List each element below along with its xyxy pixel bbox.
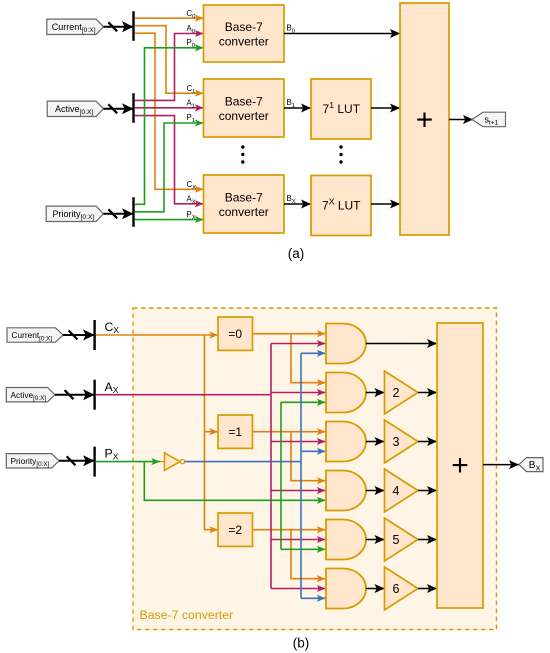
- wire inverted PX branch to AND gate 6: [301, 595, 326, 602]
- input bar Active (b): [93, 380, 95, 410]
- wire C1: [135, 26, 204, 97]
- AND gate G5: [326, 520, 366, 560]
- svg-text:CX: CX: [105, 320, 120, 335]
- svg-text:=2: =2: [228, 523, 242, 537]
- wire AX branch to AND gate 5: [271, 536, 326, 543]
- svg-text:7X LUT: 7X LUT: [322, 197, 361, 213]
- wire multiplier 4 to adder: [418, 486, 437, 495]
- svg-text:71 LUT: 71 LUT: [323, 100, 361, 116]
- bus arrow Active to bus bar: [104, 103, 134, 114]
- input tag Priority[0:X] (b): [6, 454, 59, 469]
- AND gate G6: [326, 569, 366, 609]
- wire inverted PX (blue) to riser: [185, 461, 301, 463]
- wire A1: [135, 104, 204, 111]
- svg-text:AX: AX: [105, 380, 119, 395]
- bus bar Current: [132, 11, 134, 41]
- block Base-7 converter U3: [204, 175, 285, 233]
- wire multiplier 6 to adder: [418, 584, 437, 593]
- AND gate G1: [326, 324, 366, 364]
- bus arrow Priority (b): [59, 455, 95, 466]
- svg-text:2: 2: [393, 386, 400, 400]
- AND gate G4: [326, 471, 366, 511]
- wire AX branch to AND gate 4: [271, 487, 326, 494]
- wire adder output (a): [449, 115, 473, 124]
- input bar Priority (b): [93, 447, 95, 477]
- bus arrow Current (b): [63, 330, 95, 341]
- adder block (a): [400, 3, 449, 235]
- wire LUT1 to adder: [371, 104, 400, 113]
- bus arrow Priority to bus bar: [104, 208, 134, 219]
- svg-text:Base-7: Base-7: [225, 95, 263, 109]
- wire =0 branch to AND gate 2: [291, 334, 326, 387]
- wire PX: [135, 216, 204, 223]
- output tag BX: [519, 458, 543, 473]
- svg-text:5: 5: [393, 533, 400, 547]
- wire CX to comparator =0: [96, 331, 218, 338]
- output tag s_t+1: [472, 112, 506, 127]
- input tag Current[0:X] (b): [7, 328, 63, 343]
- wire AND gate 4 to multiplier 4: [366, 486, 385, 495]
- wire AX feed to riser: [96, 394, 271, 396]
- wire PX branch to AND gate 4: [144, 462, 325, 504]
- wire multiplier 5 to adder: [418, 535, 437, 544]
- bus arrow Current to bus bar: [104, 21, 134, 32]
- wire =0 to AND gate 1: [253, 330, 326, 337]
- svg-text:+: +: [451, 449, 469, 482]
- multiplier x5: [385, 518, 419, 561]
- wire AX branch to AND gate 2: [271, 389, 326, 396]
- comparator =0: [218, 317, 253, 350]
- svg-text:Base-7: Base-7: [225, 20, 263, 34]
- svg-text:converter: converter: [219, 109, 269, 123]
- adder block (b): [437, 323, 483, 608]
- wire PX to inverter: [96, 458, 160, 465]
- block 7^1 LUT: [311, 79, 371, 139]
- input tag Active[0:X]: [47, 101, 103, 116]
- wire BX converter3 to LUT2: [284, 200, 311, 209]
- wire CX branch to =1: [205, 335, 219, 435]
- input bar Current (b): [93, 320, 95, 350]
- wire A0: [135, 30, 204, 100]
- comparator =2: [218, 513, 253, 546]
- wire AND gate 6 to multiplier 6: [366, 584, 385, 593]
- wire LUT2 to adder: [371, 200, 400, 209]
- wire AX branch to AND gate 1: [271, 340, 326, 347]
- wire AND gate 2 to multiplier 2: [366, 388, 385, 397]
- wire CX branch to =2: [205, 432, 219, 534]
- wire =2 to AND gate 5: [253, 526, 326, 533]
- bus bar Priority: [132, 197, 134, 227]
- multiplier x3: [385, 420, 419, 463]
- svg-text:6: 6: [393, 582, 400, 596]
- wire inverted PX branch to AND gate 3: [301, 448, 326, 455]
- wire PX branch to AND gate 5: [281, 546, 326, 553]
- svg-text:=1: =1: [228, 425, 242, 439]
- wire AX branch to AND gate 6: [271, 585, 326, 592]
- wire AND gate 3 to multiplier 3: [366, 437, 385, 446]
- block Base-7 converter U1: [204, 5, 285, 62]
- bus arrow Active (b): [55, 389, 95, 400]
- wire PX branch to AND gate 2: [281, 399, 326, 406]
- svg-text:PX: PX: [105, 447, 119, 462]
- wire P1: [135, 119, 204, 211]
- wire multiplier 3 to adder: [418, 437, 437, 446]
- multiplier x4: [385, 469, 419, 512]
- svg-text:+: +: [416, 104, 434, 137]
- wire P0: [135, 44, 204, 204]
- svg-text:Base-7: Base-7: [225, 191, 263, 205]
- block Base-7 converter U2: [204, 79, 285, 137]
- svg-text:3: 3: [393, 435, 400, 449]
- wire =1 to AND gate 3: [253, 428, 326, 435]
- svg-text:=0: =0: [228, 327, 242, 341]
- svg-text:converter: converter: [219, 34, 269, 48]
- multiplier x6: [385, 567, 419, 610]
- comparator =1: [218, 415, 253, 448]
- wire adder output (b): [483, 460, 519, 469]
- svg-text:Base-7 converter: Base-7 converter: [140, 608, 234, 622]
- wire CX: [135, 33, 204, 193]
- svg-text:4: 4: [393, 484, 400, 498]
- AND gate G3: [326, 422, 366, 462]
- riser AX (crimson): [270, 344, 272, 589]
- svg-text:(a): (a): [288, 246, 305, 261]
- riser PX (green): [280, 402, 282, 549]
- multiplier x2: [385, 371, 419, 414]
- bus bar Active: [132, 93, 134, 123]
- wire C0: [135, 15, 204, 22]
- wire AND gate 5 to multiplier 5: [366, 535, 385, 544]
- wire B1 converter2 to LUT1: [284, 104, 311, 113]
- input tag Current[0:X]: [47, 19, 104, 34]
- wire multiplier 2 to adder: [418, 388, 437, 397]
- input tag Priority[0:X]: [46, 206, 103, 221]
- wire B0 converter1 to adder: [284, 29, 400, 38]
- svg-text:converter: converter: [219, 205, 269, 219]
- AND gate G2: [326, 373, 366, 413]
- block 7^X LUT: [311, 176, 371, 236]
- ellipsis between converters: [241, 145, 244, 163]
- wire =2 branch to AND gate 6: [291, 530, 326, 583]
- container Base-7 converter (dashed): [133, 308, 497, 630]
- wire inverted PX branch to AND gate 1: [301, 350, 326, 357]
- riser inverted PX (blue): [300, 353, 302, 598]
- input tag Active[0:X] (b): [6, 388, 55, 403]
- svg-text:(b): (b): [293, 636, 310, 651]
- inverter on PX: [160, 453, 185, 471]
- wire AX branch to AND gate 3: [271, 438, 326, 445]
- wire AX: [135, 116, 204, 208]
- ellipsis between LUTs: [339, 145, 342, 163]
- wire AND gate 1 to adder: [366, 339, 437, 348]
- wire =1 branch to AND gate 4: [291, 432, 326, 485]
